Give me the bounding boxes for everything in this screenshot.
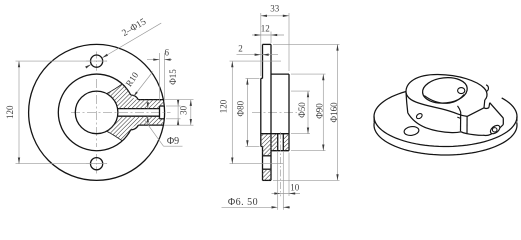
top bolt hole vertical centerline — [96, 52, 98, 71]
lug fillet R10 bottom — [131, 125, 139, 130]
side view Phi6.5 hole walls (section) — [277, 134, 279, 151]
dimension Phi50: dimension line — [307, 91, 309, 134]
side view spigot Phi80 step — [260, 78, 262, 146]
dimension 120 front: dimension line — [18, 61, 20, 164]
svg-text:10: 10 — [290, 182, 300, 192]
dimension Phi9: arrows and leader — [147, 102, 149, 109]
svg-text:Φ9: Φ9 — [167, 136, 179, 147]
dimension 6: dimension line and outside arrows — [147, 59, 160, 61]
3d view slit in boss near lug — [483, 100, 486, 108]
bolt hole centerline cross — [86, 163, 107, 165]
svg-text:30: 30 — [179, 105, 189, 115]
3d view lug right corner edge — [502, 118, 504, 124]
front view centerline vertical — [96, 79, 98, 147]
front view boss circle (Phi90) with gap at lug — [58, 74, 130, 151]
dimension 12: dimension line with outside arrows — [252, 34, 284, 36]
dimension 33: dimension line — [261, 15, 289, 17]
Phi9 hole bottom wall — [118, 115, 160, 117]
svg-text:33: 33 — [270, 3, 280, 13]
counterbore top edge — [160, 105, 165, 107]
svg-text:6: 6 — [165, 48, 170, 58]
3d view boss bottom arc joining lug bottom edge — [408, 113, 504, 136]
dimension 12: extension line — [270, 32, 272, 44]
3d view bore inner wall arc — [424, 95, 464, 104]
dimension Phi50: extension lines — [291, 90, 310, 92]
3d view small opening on boss front wall — [415, 113, 423, 120]
dimension 2: dimension line with outside arrows — [237, 54, 279, 56]
front view centerline horizontal — [71, 111, 171, 113]
dimension 30: extension lines — [164, 99, 194, 101]
3d view disc rim side edges — [373, 117, 375, 123]
bolt hole centerline cross — [86, 60, 107, 62]
3d view disc top face ellipse (gap behind boss) — [374, 91, 517, 146]
bolt hole centerline bottom (ext of 120) — [230, 163, 284, 165]
dimension Phi6.50: extension lines — [277, 152, 279, 210]
dimension 120 front: extension lines — [16, 60, 108, 62]
bolt hole Phi15 bottom — [91, 158, 103, 170]
lug fillet R10 top — [131, 95, 139, 100]
bolt hole centerline top (ext of 120) — [230, 60, 282, 62]
dimension 120 middle: dimension line — [231, 61, 233, 164]
dimension 30: dimension line — [190, 100, 192, 126]
bottom bolt hole vertical centerline — [96, 154, 98, 174]
Phi9 hole top wall — [118, 108, 160, 110]
counterbore bottom edge — [160, 118, 165, 120]
svg-text:Φ15: Φ15 — [168, 69, 178, 85]
section break line upper — [107, 84, 123, 94]
dimension Phi160: dimension line — [337, 44, 339, 180]
dimension Phi160: extension lines — [273, 43, 340, 45]
front view central bore circle (Phi50) — [75, 91, 118, 134]
3d view bolt hole on disc lower-left — [404, 126, 420, 137]
3d view central bore Phi50 top ellipse — [421, 76, 468, 106]
side view bore bottom edge (section) — [261, 133, 289, 135]
3d view disc bottom rim arc — [374, 122, 517, 155]
svg-text:Φ80: Φ80 — [236, 100, 246, 116]
dimension Phi90: dimension line — [322, 74, 324, 151]
svg-text:2: 2 — [238, 44, 243, 54]
dimension Phi6.50: dimension line with outside arrows — [222, 206, 272, 208]
front view outer flange circle (Phi160) — [29, 44, 165, 180]
dimension Phi15: dimension line with outside arrows — [177, 99, 179, 126]
side view centerline axis — [252, 111, 297, 113]
svg-text:Φ160: Φ160 — [329, 102, 339, 123]
dimension Phi80: extension lines — [246, 77, 260, 79]
3d view boss left wall edge — [406, 93, 408, 113]
3d view Phi6.5 hole opening inside bore — [458, 88, 465, 94]
3d view lug top-left edge — [467, 108, 484, 117]
lug slot top edge — [138, 99, 163, 101]
svg-text:12: 12 — [261, 24, 270, 34]
svg-text:Φ50: Φ50 — [297, 102, 307, 118]
3d view bolt hole peeking behind boss upper-right — [486, 85, 488, 92]
dimension Phi80: dimension line — [246, 78, 248, 146]
dimension 6: extension lines — [159, 53, 161, 103]
side view plate outline — [263, 43, 272, 45]
leader 2-Phi15 — [102, 23, 161, 58]
3d view screw hole Phi15/Phi9 on lug face — [489, 124, 501, 136]
svg-text:120: 120 — [5, 105, 15, 119]
dimension Phi15 counterbore: extension lines — [166, 105, 181, 107]
side view bolt hole edges (section) — [263, 155, 272, 157]
3d view lug top-back edge — [490, 103, 504, 118]
3d view slit front opening edges — [458, 106, 461, 112]
section break line lower — [107, 131, 123, 141]
lug slot bottom edge — [138, 124, 163, 126]
counterbore Phi15 face — [159, 106, 161, 119]
dimension 10: extension and centerline — [280, 132, 282, 196]
svg-text:Φ6. 50: Φ6. 50 — [228, 197, 258, 208]
dimension Phi90: extension lines — [291, 73, 326, 75]
svg-text:120: 120 — [219, 99, 229, 113]
bolt hole Phi15 top — [91, 55, 103, 67]
3d view boss outer top face outline — [406, 74, 487, 99]
side view boss outline — [271, 73, 289, 75]
dimension 10: dimension line with outside arrows — [272, 193, 301, 195]
3d view boss top face front edge — [406, 93, 467, 117]
dimension 33: extension lines — [260, 13, 262, 76]
svg-text:Φ90: Φ90 — [315, 103, 325, 119]
